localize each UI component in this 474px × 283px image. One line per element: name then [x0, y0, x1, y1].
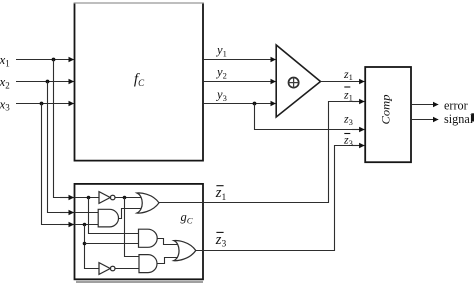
wire error output	[411, 104, 438, 106]
svg-text:error: error	[444, 99, 468, 113]
wire arrow into gC entry1	[60, 197, 74, 199]
wire vertical B to AND3	[125, 198, 140, 257]
wire AND2 out to OR2	[157, 239, 178, 245]
block fC	[75, 3, 204, 161]
AND gate AND2	[139, 229, 158, 247]
wire arrow into gC entry2	[60, 212, 74, 214]
AND gate AND1	[98, 209, 118, 227]
node C on entry3	[83, 223, 87, 227]
inverter G2	[99, 263, 110, 275]
wire x2 branch down to gC	[48, 82, 63, 213]
wire zbar3 from OR2 to Comp	[196, 146, 362, 251]
wire signal output	[411, 119, 438, 121]
gray bar bottom	[76, 281, 203, 283]
wire x1 branch down to gC	[54, 60, 63, 198]
wire AND3 out to OR2	[157, 258, 178, 264]
wire x1 input	[16, 59, 74, 61]
svg-text:signal: signal	[444, 112, 474, 126]
svg-text:Comp: Comp	[381, 94, 393, 124]
wire entry3 to AND1	[75, 224, 99, 226]
wire AND1 out to OR1	[119, 209, 141, 219]
parity checker triangle U1	[276, 45, 320, 117]
block gC	[75, 184, 204, 279]
node on y3 line	[253, 102, 257, 106]
wire inverter2 out to AND3	[115, 268, 139, 270]
wire z3 from y3 down to Comp	[255, 104, 363, 130]
wire x3 input	[16, 103, 74, 105]
node B after inverter	[123, 196, 127, 200]
inverter G1	[99, 192, 110, 204]
node on vertical C	[83, 242, 87, 246]
wire x3 branch down to gC	[42, 104, 63, 225]
node A on entry1	[87, 196, 91, 200]
AND gate AND3	[139, 255, 157, 273]
wire z1 to Comp	[321, 81, 365, 83]
node on x1 line	[52, 58, 56, 62]
node on x2 line	[46, 80, 50, 84]
OR gate OR2	[174, 241, 196, 261]
wire y3	[204, 103, 276, 105]
wire vertical C branch	[85, 225, 99, 269]
wire inverter out to OR1	[115, 197, 140, 199]
xor circle-plus symbol	[289, 78, 299, 88]
black mark at right edge	[471, 113, 474, 121]
wire C to AND2 lower input	[85, 243, 139, 245]
wire x2 input	[16, 81, 74, 83]
wire gC entry1 to inverter	[75, 197, 99, 199]
block Comp	[365, 67, 411, 162]
wire arrow into gC entry3	[60, 224, 74, 226]
OR gate OR1	[137, 193, 159, 213]
wire vertical A to AND2	[89, 198, 139, 234]
wire entry2 to AND1	[75, 212, 99, 214]
wire y2	[204, 81, 276, 83]
wire y1	[204, 59, 276, 61]
wire zbar1 from OR1 to Comp	[159, 102, 362, 203]
node on x3 line	[40, 102, 44, 106]
